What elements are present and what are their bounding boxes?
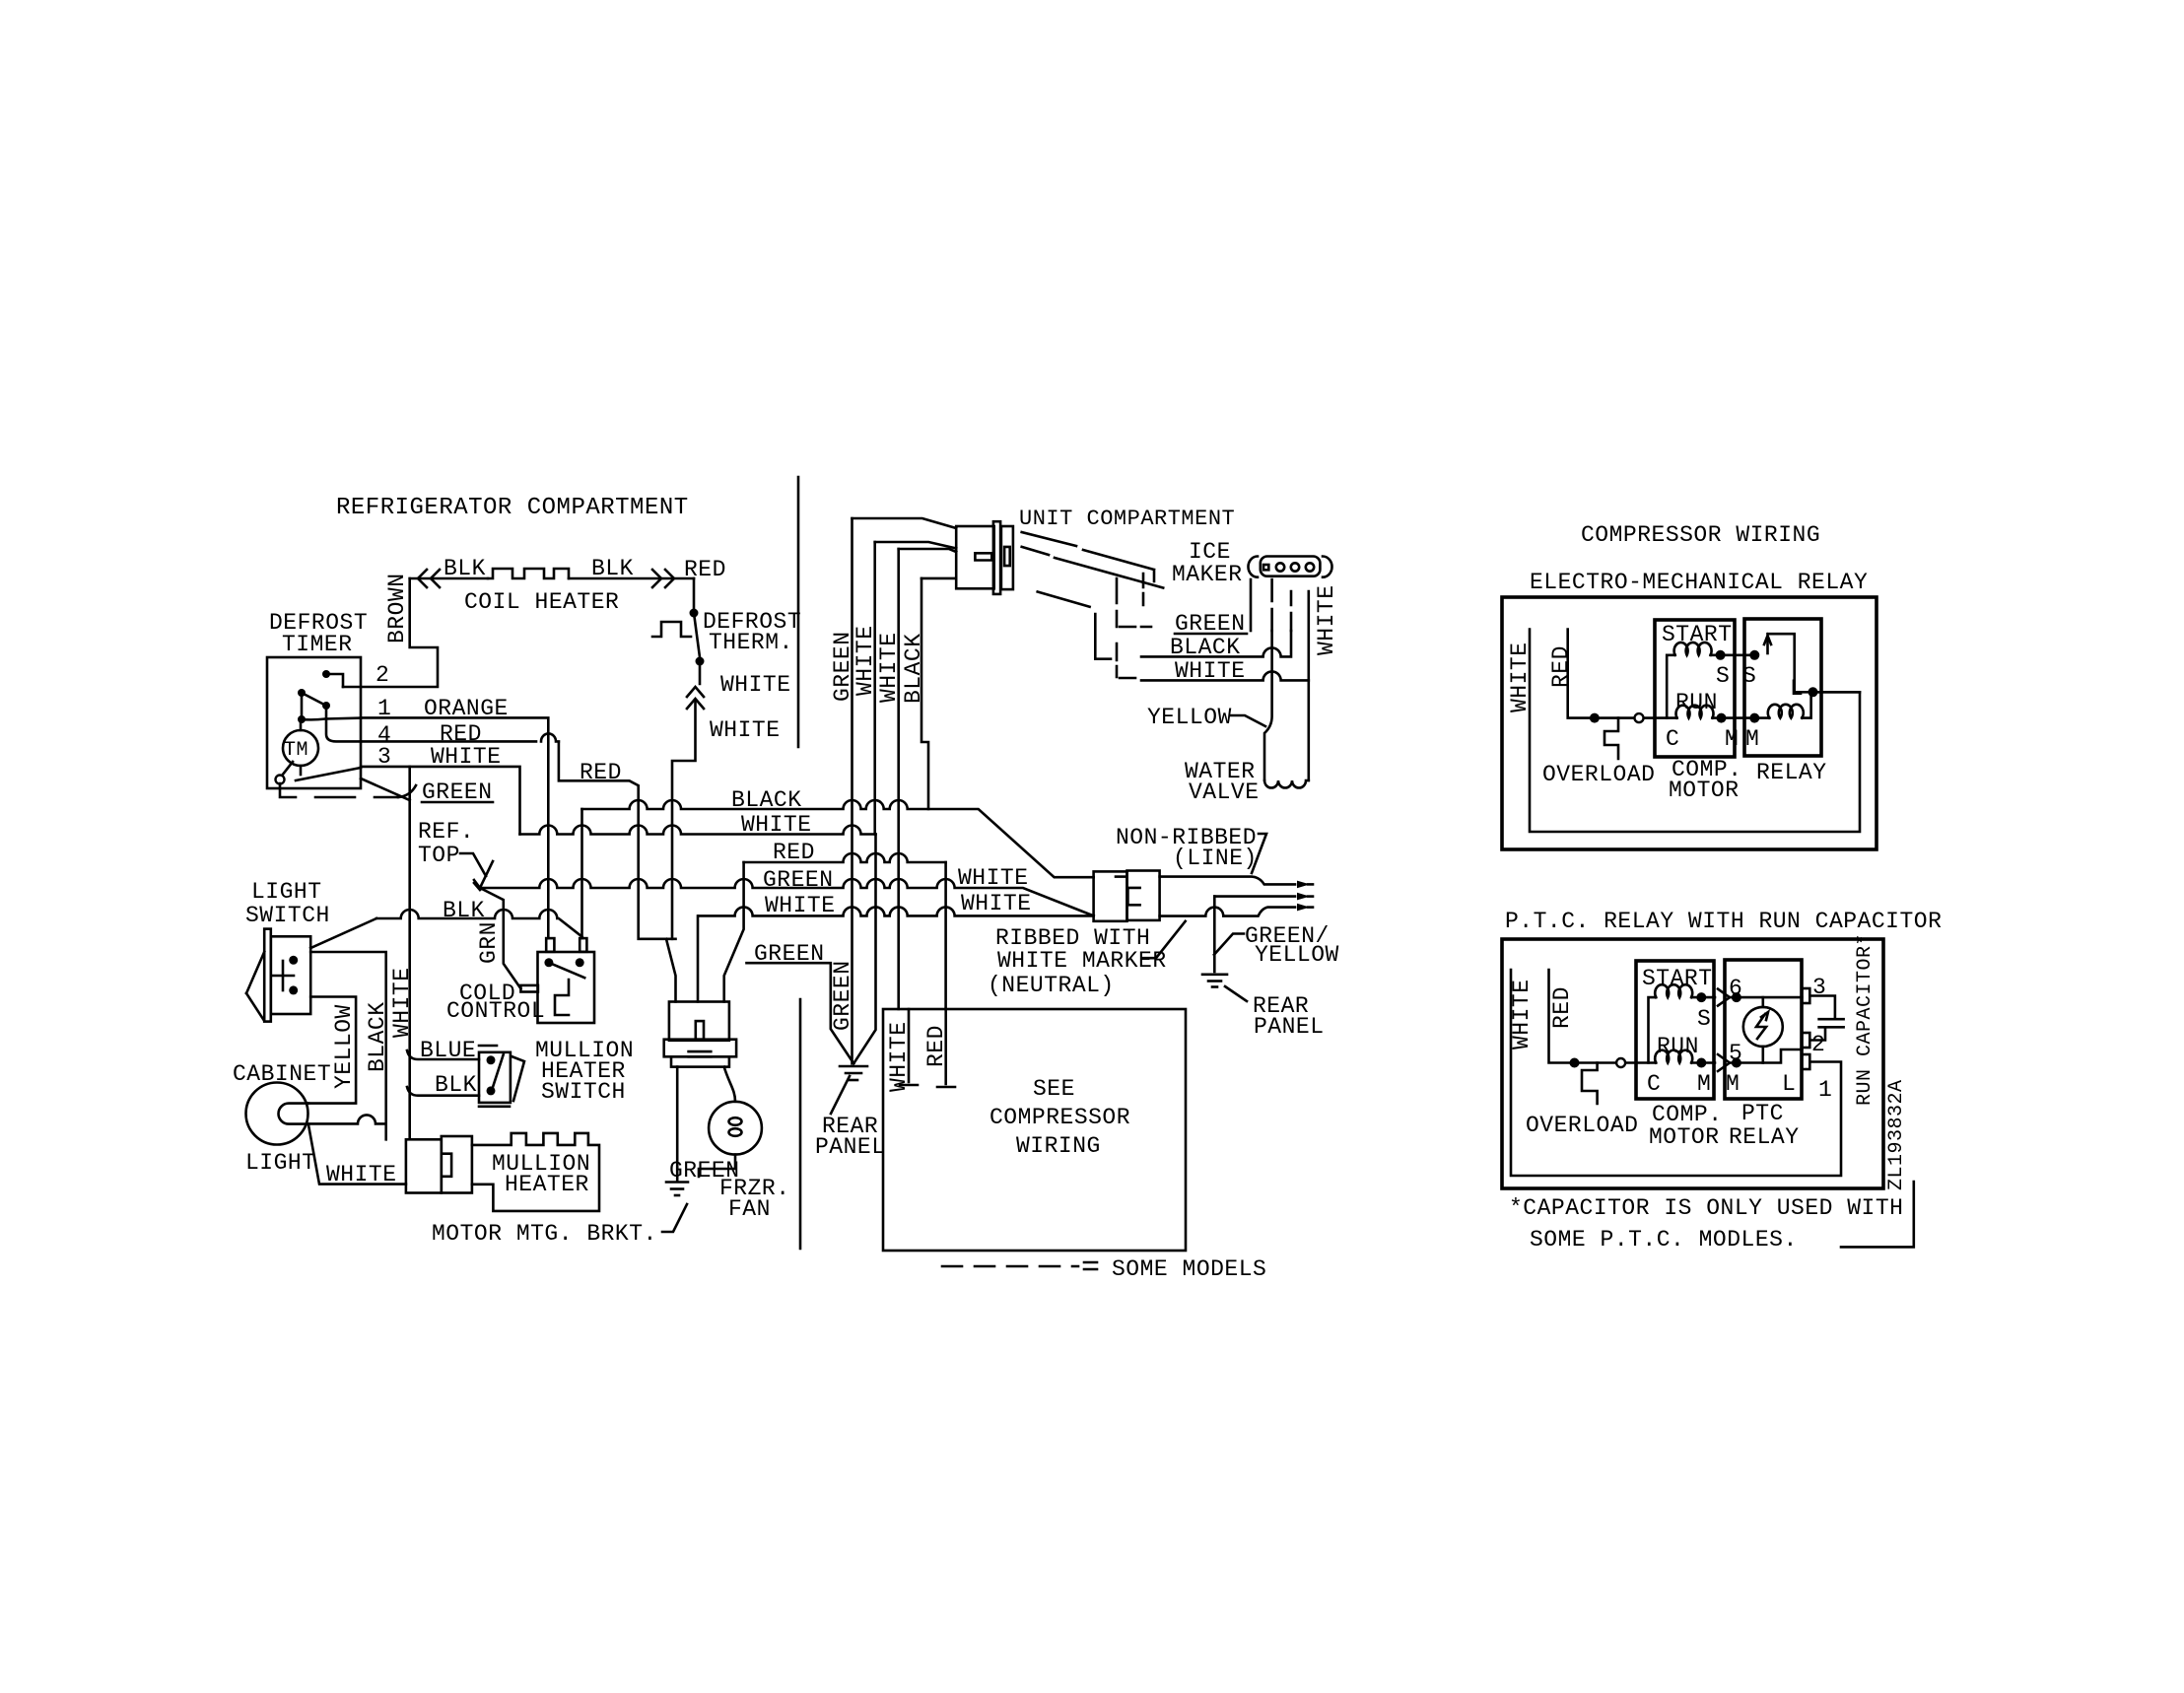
terminal numbers 1 4 3 (377, 696, 391, 770)
green ground arrow (left line and label) (747, 941, 854, 1063)
dashed wires connector to ice maker (1022, 532, 1164, 659)
svg-text:SWITCH: SWITCH (245, 903, 330, 928)
svg-text:ELECTRO-MECHANICAL RELAY: ELECTRO-MECHANICAL RELAY (1530, 570, 1868, 595)
svg-text:2: 2 (375, 662, 389, 688)
svg-text:2: 2 (1811, 1032, 1825, 1057)
non-ribbed line connector (1094, 871, 1160, 921)
wire fan bottom (699, 1155, 735, 1177)
PTC chevron 6 with dot (1718, 989, 1802, 1006)
label RIBBED WITH WHITE MARKER with pointer (995, 921, 1186, 974)
label BLK with wire (407, 1072, 479, 1098)
EM relay coil (1768, 687, 1860, 717)
EM overload (1604, 718, 1618, 759)
svg-text:WHITE: WHITE (876, 632, 902, 703)
label WATER VALVE (1185, 759, 1260, 805)
EM white return path (1530, 630, 1860, 833)
note capacitor only used (1509, 1195, 1903, 1253)
svg-text:GRN: GRN (476, 921, 502, 964)
timer terminal 2 dot (322, 670, 330, 678)
svg-text:OVERLOAD: OVERLOAD (1526, 1113, 1638, 1138)
labels COMP. MOTOR RELAY EM (1669, 757, 1827, 803)
wire fan connector to fan (724, 1067, 735, 1102)
svg-text:6: 6 (1729, 976, 1742, 1001)
wire black bus feed to cold control (580, 809, 583, 938)
wire black down from ice maker (1264, 631, 1272, 780)
wire green-yellow to ground (1213, 897, 1216, 972)
svg-text:REF.: REF. (418, 819, 474, 845)
svg-text:RED: RED (580, 760, 622, 785)
dashed drops from ice maker (1117, 578, 1291, 678)
svg-text:FAN: FAN (728, 1196, 771, 1222)
EM relay box (1744, 619, 1821, 756)
wire white bus turndown to rear panel ground (853, 835, 875, 1064)
PTC relay box (1725, 960, 1802, 1099)
svg-text:MOTOR: MOTOR (1649, 1124, 1720, 1150)
defrost thermostat (652, 578, 705, 666)
light switch label (245, 879, 330, 928)
cold control tab (520, 985, 538, 992)
ground rear panel (under green arrow) (840, 1066, 867, 1080)
svg-text:COMPRESSOR WIRING: COMPRESSOR WIRING (1581, 522, 1820, 548)
svg-text:PTC: PTC (1741, 1101, 1784, 1126)
svg-text:REFRIGERATOR COMPARTMENT: REFRIGERATOR COMPARTMENT (336, 495, 689, 521)
svg-text:YELLOW: YELLOW (1147, 705, 1232, 730)
svg-text:M: M (1725, 726, 1739, 752)
svg-text:TM: TM (284, 739, 308, 762)
svg-text:WHITE: WHITE (389, 967, 415, 1038)
svg-text:LIGHT: LIGHT (251, 879, 322, 905)
see compressor wiring box (883, 1009, 1186, 1251)
freezer fan motor (709, 1102, 762, 1155)
wire red vertical down with crossings (639, 800, 676, 939)
svg-text:PANEL: PANEL (815, 1134, 886, 1160)
svg-text:LIGHT: LIGHT (245, 1150, 316, 1176)
label GREEN underlined with wire (1175, 579, 1251, 637)
svg-text:BLACK: BLACK (901, 633, 926, 704)
svg-text:ZL193832A: ZL193832A (1885, 1079, 1908, 1190)
svg-text:TOP: TOP (418, 843, 460, 868)
svg-text:WHITE: WHITE (720, 672, 791, 698)
light switch (246, 929, 310, 1022)
svg-text:M: M (1697, 1071, 1711, 1097)
svg-text:UNIT COMPARTMENT: UNIT COMPARTMENT (1019, 507, 1235, 531)
svg-text:MOTOR MTG. BRKT.: MOTOR MTG. BRKT. (432, 1221, 657, 1247)
wire 3 white: timer to white bus (361, 767, 520, 835)
wire white2 into connector (899, 549, 957, 552)
wire red bus into compressor box (944, 862, 947, 1009)
svg-text:L: L (1790, 676, 1804, 702)
svg-text:BROWN: BROWN (384, 573, 410, 643)
label REAR PANEL left with pointer (815, 1076, 886, 1160)
svg-text:BLACK: BLACK (365, 1001, 390, 1072)
cabinet light (246, 1083, 309, 1145)
PTC run winding coil (1655, 1050, 1715, 1068)
label FRZR. FAN (719, 1176, 790, 1222)
svg-text:S: S (1697, 1006, 1711, 1032)
svg-text:WHITE: WHITE (958, 865, 1029, 891)
EM relay outer box (1502, 597, 1877, 849)
svg-text:RED: RED (1548, 645, 1574, 688)
bus WHITE 2 (699, 893, 1094, 918)
wire green from unit connector (long vertical) (851, 518, 853, 1063)
PTC thermistor (1743, 997, 1783, 1062)
svg-text:YELLOW: YELLOW (1255, 942, 1339, 968)
mullion heater switch labels (535, 1038, 634, 1105)
ground motor mtg brkt (666, 1183, 688, 1196)
svg-text:S: S (1716, 663, 1730, 689)
wire red bus left end down to fan connector (724, 862, 744, 1002)
svg-text:BLK: BLK (444, 556, 486, 581)
coil heater resistor (488, 569, 569, 578)
label REAR PANEL right with pointer (1225, 986, 1325, 1040)
PTC terminal tabs (1802, 988, 1809, 1069)
label MOTOR MTG. BRKT. with pointer (432, 1204, 687, 1247)
PTC comp motor box (1636, 961, 1714, 1099)
svg-text:L: L (1782, 1071, 1796, 1097)
wire green into connector (853, 518, 957, 528)
wire defrost therm down with chevrons (672, 661, 704, 939)
svg-text:SOME P.T.C. MODLES.: SOME P.T.C. MODLES. (1530, 1227, 1798, 1253)
label YELLOW with wire (1147, 705, 1265, 730)
EM comp motor box (1655, 620, 1735, 757)
svg-text:BLK: BLK (435, 1072, 477, 1098)
bus BLACK (582, 787, 1094, 877)
labels M L PTC relay (1726, 1071, 1796, 1097)
label GREEN/YELLOW with pointer (1214, 923, 1339, 968)
wire white2 bus left end down to fan connector (697, 915, 700, 1001)
wire black from unit connector (921, 578, 928, 809)
svg-text:CONTROL: CONTROL (446, 998, 545, 1024)
svg-text:MOTOR: MOTOR (1669, 778, 1740, 803)
svg-text:VALVE: VALVE (1189, 779, 1260, 805)
freezer fan connector (664, 1002, 736, 1067)
label WHITE underlined with wire (1141, 658, 1309, 684)
defrost timer label (269, 610, 368, 657)
svg-text:PANEL: PANEL (1254, 1014, 1325, 1040)
svg-text:C: C (1647, 1071, 1661, 1097)
wire green-yellow with arrow (1214, 893, 1313, 901)
wire yellow light switch to cabinet light (308, 997, 356, 1104)
label WHITE vertical in box with wire (886, 1009, 918, 1092)
labels S S EM (1716, 663, 1756, 689)
svg-text:WHITE: WHITE (765, 893, 836, 918)
wire white from cabinet light to mullion connector (308, 1125, 406, 1185)
svg-text:WHITE: WHITE (326, 1162, 397, 1187)
ice maker connector (1249, 557, 1332, 577)
wire green from timer (slant) (361, 779, 410, 800)
wire line out top with arrow (1160, 877, 1313, 889)
svg-text:M: M (1745, 726, 1759, 752)
svg-text:3: 3 (1812, 975, 1826, 1000)
svg-text:THERM.: THERM. (709, 630, 793, 655)
cold control labels (446, 981, 545, 1024)
compartment divider line (upper) (797, 477, 800, 747)
PTC red riser and main line (1549, 970, 1657, 1068)
svg-text:C: C (1666, 726, 1679, 752)
EM red riser and main line (1568, 630, 1677, 723)
svg-text:WHITE: WHITE (1507, 642, 1533, 712)
svg-text:RELAY: RELAY (1729, 1124, 1800, 1150)
defrost timer box (267, 657, 361, 788)
wire cabinet light to black vertical (308, 1115, 386, 1123)
water valve coil (1264, 780, 1309, 788)
svg-text:BLK: BLK (591, 556, 634, 581)
wire white long vertical (timer 3 to mullion conn) (408, 767, 411, 1139)
svg-text:*CAPACITOR IS ONLY USED WITH: *CAPACITOR IS ONLY USED WITH (1509, 1195, 1903, 1221)
svg-text:RUN: RUN (1675, 690, 1718, 715)
svg-text:1: 1 (1818, 1077, 1832, 1103)
wire white1 into connector (875, 542, 957, 549)
labels 3 2 1 PTC (1811, 975, 1832, 1103)
timer case ground terminal (276, 776, 285, 784)
label SEE COMPRESSOR WIRING (990, 1076, 1130, 1159)
labels COMP. MOTOR PTC RELAY (1649, 1101, 1800, 1150)
EM run winding coil (1676, 706, 1770, 723)
labels C M M EM (1666, 726, 1759, 752)
label ICE MAKER (1172, 539, 1243, 587)
svg-text:WHITE: WHITE (961, 891, 1032, 916)
svg-text:WHITE: WHITE (1509, 979, 1535, 1050)
svg-text:5: 5 (1729, 1041, 1742, 1066)
svg-text:RED: RED (1549, 986, 1575, 1029)
dashed wire from timer case (280, 783, 416, 797)
PTC chevron 5 with dot (1718, 1050, 1802, 1071)
labels C M PTC motor (1647, 1071, 1711, 1097)
mullion heater resistor (472, 1133, 599, 1211)
label RED vertical in box with wire (923, 1009, 955, 1087)
timer motor TM (283, 730, 318, 766)
ref top switch blade (474, 861, 493, 890)
svg-text:OVERLOAD: OVERLOAD (1542, 762, 1655, 787)
label GREEN (underlined) (422, 779, 493, 805)
svg-text:RUN: RUN (1657, 1034, 1699, 1059)
PTC white return path (1511, 970, 1841, 1176)
EM start winding coil (1667, 643, 1759, 718)
svg-text:SEE: SEE (1033, 1076, 1075, 1102)
labels 6 5 PTC (1729, 976, 1742, 1066)
PTC outer box (1502, 939, 1883, 1188)
some models dashed legend (942, 1256, 1266, 1282)
svg-text:YELLOW: YELLOW (331, 1004, 357, 1089)
svg-text:WHITE: WHITE (1314, 584, 1339, 655)
wire black from light switch down (310, 952, 386, 1139)
EM relay armature (1764, 634, 1809, 692)
svg-text:COMPRESSOR: COMPRESSOR (990, 1105, 1130, 1130)
PTC overload (1582, 1063, 1598, 1105)
svg-text:MAKER: MAKER (1172, 562, 1243, 587)
svg-text:HEATER: HEATER (505, 1172, 589, 1197)
wire light switch to BLK bus (310, 918, 376, 948)
coil heater wire right with arrows (569, 570, 694, 587)
bus GREEN (480, 867, 1094, 915)
PTC start winding coil (1649, 984, 1716, 1062)
label REF. TOP (418, 819, 486, 876)
svg-text:RELAY: RELAY (1756, 760, 1827, 785)
wire 4 red: timer to junction (361, 733, 639, 800)
svg-text:(NEUTRAL): (NEUTRAL) (988, 973, 1115, 998)
bus WHITE (520, 812, 876, 838)
PTC run capacitor (1809, 996, 1843, 1041)
timer contact dots (298, 689, 330, 723)
svg-text:WHITE MARKER: WHITE MARKER (997, 948, 1167, 974)
wire: terminal 2 to coil heater (brown) (343, 578, 438, 687)
mullion heater switch (479, 1052, 524, 1107)
svg-text:WHITE: WHITE (853, 625, 878, 696)
label BLUE with wire (407, 1038, 497, 1063)
wire slant into fan connector (666, 939, 676, 1002)
wire BLK from light switch (376, 898, 582, 937)
svg-text:M: M (1726, 1071, 1740, 1097)
svg-text:WIRING: WIRING (1016, 1133, 1101, 1159)
svg-text:P.T.C. RELAY WITH RUN CAPACITO: P.T.C. RELAY WITH RUN CAPACITOR (1505, 909, 1942, 934)
svg-text:RUN CAPACITOR*: RUN CAPACITOR* (1854, 933, 1877, 1106)
wire green bus to cold control (474, 880, 520, 988)
svg-text:TIMER: TIMER (282, 632, 353, 657)
label NON-RIBBED (LINE) with pointer (1116, 825, 1266, 873)
wire white down to water valve (1308, 591, 1311, 780)
wire fan connector to ground (676, 1067, 679, 1181)
label BLACK underlined with wire (1141, 631, 1291, 660)
svg-text:SOME MODELS: SOME MODELS (1112, 1256, 1266, 1282)
svg-text:COIL HEATER: COIL HEATER (464, 589, 619, 615)
wire white2 from unit connector to compressor box (897, 549, 900, 1009)
label DEFROST THERM. (703, 609, 801, 655)
wire white1 from unit connector (873, 542, 876, 835)
note bracket line (1841, 1182, 1914, 1247)
wire 1 orange: timer to cold control (361, 717, 548, 938)
mullion heater connector (406, 1136, 472, 1193)
timer internal wires (282, 674, 361, 780)
svg-text:WHITE: WHITE (710, 717, 781, 743)
svg-text:SWITCH: SWITCH (541, 1079, 626, 1105)
svg-text:GREEN: GREEN (830, 960, 855, 1031)
bus RED (744, 840, 946, 865)
svg-text:(LINE): (LINE) (1173, 846, 1258, 871)
cold control box (538, 938, 595, 1023)
wire black into connector (921, 577, 954, 580)
ground rear panel right (1202, 975, 1227, 987)
unit compartment connector (956, 521, 1013, 594)
svg-text:RED: RED (684, 557, 726, 582)
wire neutral out with arrow (1160, 904, 1313, 916)
coil heater wire left with arrows (410, 570, 488, 587)
compartment divider line (lower) (799, 999, 802, 1249)
mullion heater labels (492, 1151, 590, 1197)
